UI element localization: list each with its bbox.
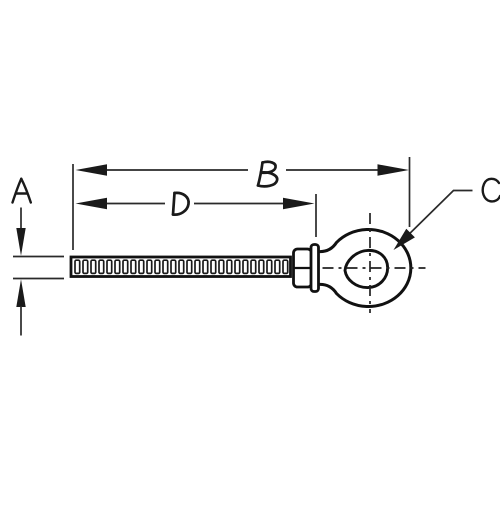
hex nut <box>294 249 312 287</box>
arrowhead D right <box>283 198 315 209</box>
dimension line B <box>104 169 380 171</box>
threaded shank rod <box>71 257 291 277</box>
arrowhead B left <box>76 164 108 175</box>
arrowhead D left <box>76 198 108 209</box>
arrowhead A up <box>16 279 25 307</box>
label D <box>173 193 189 215</box>
A dimension lower leader <box>20 306 22 336</box>
hex nut facet line <box>294 267 312 269</box>
thread marks <box>75 260 288 273</box>
label B <box>258 162 277 187</box>
eye inner hole <box>345 250 388 287</box>
extension line left (shank end) <box>72 164 74 250</box>
label C <box>483 179 500 202</box>
dimension line D <box>104 203 285 205</box>
washer <box>311 245 319 292</box>
extension line B right (eye edge) <box>409 157 411 227</box>
extension line D right (washer) <box>315 194 317 237</box>
horizontal centerline <box>323 267 426 269</box>
vertical centerline <box>369 213 371 313</box>
A dimension upper leader <box>20 208 22 231</box>
arrowhead C <box>394 229 415 250</box>
arrowhead A down <box>16 228 25 256</box>
A dimension bottom tick <box>13 278 64 280</box>
A dimension top tick <box>13 256 64 258</box>
leader line C <box>398 191 473 246</box>
eye outer profile <box>318 229 411 306</box>
arrowhead B right <box>378 164 410 175</box>
label A <box>13 179 31 203</box>
